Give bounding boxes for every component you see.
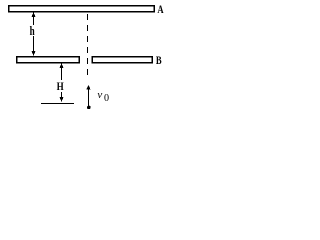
plate A (9, 6, 154, 12)
bottom reference line (41, 103, 74, 105)
dimension arrow h (32, 12, 36, 56)
svg-text:H: H (57, 81, 65, 93)
dimension arrow H (60, 63, 64, 102)
velocity arrow v0 (86, 85, 90, 106)
svg-text:A: A (157, 4, 164, 17)
plate B left segment (17, 57, 80, 63)
plate B right segment (92, 57, 152, 63)
svg-text:0: 0 (104, 93, 109, 104)
dashed trajectory line (87, 14, 89, 76)
particle dot (87, 106, 91, 110)
svg-text:B: B (156, 55, 162, 68)
svg-text:v: v (97, 89, 102, 101)
svg-text:h: h (30, 25, 36, 39)
